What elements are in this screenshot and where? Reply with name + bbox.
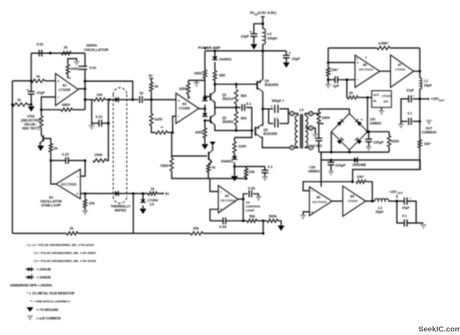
wire -15 row tie	[320, 152, 322, 160]
svg-text:+: +	[178, 99, 180, 103]
node Q2 base	[204, 119, 207, 122]
ground (earth) LT1021	[378, 111, 384, 115]
resistor 4300 (lower)	[203, 128, 206, 138]
svg-text:10k*: 10k*	[331, 68, 339, 72]
capacitor 0.33 (loop)	[222, 217, 224, 224]
svg-text:* = 1% METAL FILM RESISTOR: * = 1% METAL FILM RESISTOR	[27, 291, 75, 295]
resistor 10k* (-15 fb)	[356, 180, 366, 183]
wire 3300 loop	[188, 79, 205, 81]
svg-text:220µF: 220µF	[373, 140, 384, 144]
svg-text:L4: L4	[267, 32, 271, 36]
svg-text:1k: 1k	[212, 166, 216, 170]
svg-text:5V: 5V	[165, 192, 170, 196]
svg-text:10k: 10k	[89, 202, 95, 206]
svg-text:LT1005: LT1005	[59, 88, 71, 92]
node rect row left	[84, 98, 87, 101]
svg-text:(4.5V–5.5V): (4.5V–5.5V)	[258, 11, 277, 15]
node A1 output	[84, 88, 87, 91]
diode bridge bottom-right	[357, 139, 362, 144]
node A2 output column	[50, 159, 53, 162]
node bottom rail right end	[262, 232, 265, 235]
node rect diode junction	[108, 98, 111, 101]
capacitor 220uF (+unreg)	[365, 138, 372, 140]
pin 4 transformer	[309, 126, 313, 130]
svg-text:A6: A6	[363, 63, 367, 67]
ground (5V gnd) 22uF output	[283, 62, 290, 67]
diode 1N4001 (boost)	[212, 56, 217, 59]
resistor 10k (A2 +)	[83, 199, 86, 207]
node A4 out	[242, 198, 245, 201]
wire 10k sense to bus	[245, 177, 247, 179]
diode bridge top-right	[357, 121, 362, 126]
node output totem	[235, 106, 238, 109]
wire 2k to A2 node	[50, 152, 52, 161]
svg-text:2k: 2k	[70, 227, 74, 231]
svg-text:4300: 4300	[195, 131, 203, 135]
ground (5V gnd) LT1004	[140, 209, 147, 214]
wire Q5 emitter down	[261, 137, 290, 147]
node 220uF+ tap	[367, 130, 370, 133]
wire bridge right to unreg	[368, 131, 390, 133]
wire A1 fb to rectifier	[85, 81, 133, 100]
wire snubber top row	[319, 109, 350, 114]
wire A6 to A7	[380, 70, 391, 72]
svg-text:20µH: 20µH	[424, 84, 432, 88]
svg-text:0.1: 0.1	[402, 214, 407, 218]
wire snubber col b	[319, 124, 324, 139]
transformer L3 primary winding	[295, 116, 298, 148]
ground (earth) +15 caps	[398, 124, 404, 128]
transformer L3 secondary winding	[305, 116, 308, 148]
ground (5V gnd) 4300b	[202, 144, 209, 149]
wire A6 + input	[328, 62, 355, 64]
node bridge left bottom	[330, 151, 333, 154]
wire L1 to +15 node	[419, 89, 421, 99]
diode D2 1N4148 thermally mated	[115, 191, 118, 196]
svg-text:L1, L2 = PULSE ENGINEERING, IN: L1, L2 = PULSE ENGINEERING, INC. # PE-92…	[27, 243, 94, 247]
resistor 2k (A3 bias)	[150, 82, 153, 91]
pin 5 transformer	[309, 111, 313, 115]
node Q1 base	[204, 95, 207, 98]
wire Q1 base stub	[205, 96, 211, 98]
svg-text:1N4001: 1N4001	[219, 58, 232, 62]
legend earth symbol	[27, 316, 33, 320]
wire 47uF+15 left	[401, 99, 409, 122]
svg-text:4.99k*: 4.99k*	[378, 42, 389, 46]
svg-text:A4: A4	[225, 194, 229, 198]
wire diode to node	[234, 162, 236, 166]
ground (earth) at 2000 loop	[74, 61, 80, 65]
wire ref filter left	[328, 79, 335, 81]
ground (5V gnd) below 47uF	[28, 106, 35, 111]
capacitor 22uF input	[251, 33, 258, 35]
wire primary bottom pin	[294, 146, 298, 149]
svg-text:COMMON: COMMON	[421, 131, 437, 135]
svg-text:0.33: 0.33	[248, 186, 255, 190]
svg-text:220µF: 220µF	[335, 164, 346, 168]
resistor 6800	[61, 108, 73, 111]
wire L2 to -15 node	[389, 200, 405, 202]
node +15 unreg	[366, 130, 369, 133]
capacitor 500uF	[274, 105, 276, 113]
wire A1 output rail upper	[84, 53, 86, 66]
resistor 3300 (+unreg load)	[387, 136, 390, 148]
diode bias D4	[202, 113, 207, 116]
wire 3300 stub	[187, 80, 189, 83]
wire - node to 6800	[41, 109, 61, 111]
svg-text:IN: IN	[373, 99, 376, 103]
wire top fb rail right	[390, 47, 420, 49]
svg-text:−: −	[220, 190, 222, 194]
svg-text:+: +	[311, 210, 313, 214]
wire sense filter row	[235, 166, 265, 168]
pin 1 transformer	[290, 111, 294, 115]
svg-text:0.1: 0.1	[408, 111, 413, 115]
transistor Q5 MJE2955	[254, 127, 256, 136]
wire 220uF- gnd stub	[330, 165, 332, 171]
svg-text:0.01: 0.01	[89, 66, 96, 70]
capacitor 220uF (-unreg)	[328, 161, 335, 163]
node LT1021 in	[366, 96, 369, 99]
capacitor 0.01 (A1 output)	[79, 65, 88, 67]
wire 4300a to node	[204, 78, 206, 96]
wire bridge left col	[330, 132, 332, 152]
wire A4 fb cap stub	[243, 194, 248, 199]
wire Q4 emitter to rail	[262, 51, 264, 80]
node +15V out	[419, 98, 422, 101]
svg-text:680: 680	[219, 73, 225, 77]
wire loop row left	[210, 220, 223, 222]
pin 3 transformer	[309, 146, 313, 150]
svg-text:LOOP: LOOP	[246, 208, 255, 212]
wire 47uF+15 row	[413, 98, 420, 100]
node ref to A6 -	[346, 78, 349, 81]
wire 1k to node	[28, 104, 32, 106]
svg-text:3300: 3300	[322, 116, 330, 120]
capacitor 0.33 (A4 fb)	[248, 190, 250, 197]
wire A1 + input	[45, 80, 56, 82]
wire bias to 4300b	[204, 121, 206, 129]
wire Q6 emitter to ground	[40, 143, 41, 145]
wire 6800 to output rail	[73, 109, 86, 111]
node rail at 1N4001 col	[214, 50, 217, 53]
wire left rail vertical	[11, 81, 13, 234]
svg-text:20k: 20k	[193, 227, 199, 231]
op-amp A7 LT1010	[391, 55, 414, 87]
wire -15 fb corner	[366, 182, 372, 201]
terminal 5VIN tick	[261, 16, 265, 18]
node LT1004 tap	[142, 192, 145, 195]
svg-text:A1: A1	[62, 84, 66, 88]
svg-text:STAB LOOP: STAB LOOP	[41, 203, 61, 207]
svg-text:−: −	[357, 78, 359, 82]
ground (earth) -15 caps	[420, 225, 426, 229]
wire rect row left	[85, 99, 94, 101]
svg-text:1µF: 1µF	[333, 84, 340, 88]
wire 1N4001 top	[214, 51, 216, 57]
node 500 bottom	[235, 129, 238, 132]
node bridge bottom	[348, 151, 351, 154]
svg-text:50k: 50k	[249, 215, 255, 219]
wire gnd stub +15 caps	[400, 121, 402, 124]
op-amp A1 LT1005	[56, 74, 79, 106]
resistor 500	[235, 112, 238, 126]
svg-text:+: +	[271, 105, 273, 109]
capacitor 0.01 (top feedback)	[38, 50, 40, 57]
wire 6200 to ** row	[151, 126, 155, 133]
wire Q3 emitter to 1k	[208, 162, 212, 164]
wire ** to - column	[168, 132, 173, 134]
node 0.22 to column	[107, 122, 110, 125]
wire A4 out	[238, 198, 243, 200]
svg-text:1/2 LT1013: 1/2 LT1013	[221, 198, 236, 202]
node A8 out fb	[371, 200, 374, 203]
wire A7 to L1	[419, 71, 421, 78]
svg-text:LT1021: LT1021	[382, 94, 392, 98]
svg-text:560: 560	[241, 94, 247, 98]
wire 0.22 left stub	[92, 122, 99, 124]
wire A2 + to 10k	[84, 194, 86, 200]
resistor 2700 selected value	[40, 116, 43, 128]
svg-text:SEE TEXT): SEE TEXT)	[22, 127, 40, 131]
svg-text:10V: 10V	[383, 100, 388, 104]
svg-text:0.01: 0.01	[37, 43, 44, 47]
pin 2 transformer	[290, 146, 294, 150]
node A3 + bias	[150, 98, 153, 101]
wire A2 - input	[80, 161, 85, 177]
capacitor 22uF output	[283, 54, 290, 56]
node 22uF tap	[262, 22, 265, 25]
op-amp A2 1/2 LT1013	[56, 169, 80, 199]
svg-text:1/2 LT1013: 1/2 LT1013	[312, 200, 327, 204]
capacitor 0.002 snubber	[315, 137, 322, 139]
wire 3300 to A3	[187, 94, 189, 99]
svg-text:22µF: 22µF	[241, 34, 250, 38]
wire 0.1+15 row left	[401, 120, 407, 122]
wire 500k right	[278, 221, 281, 226]
ground (earth) sense filter	[262, 177, 268, 181]
wire bottom row	[319, 151, 389, 153]
wire 220uF+ gnd stub	[368, 142, 370, 146]
wire A3 out to bias column	[199, 108, 205, 110]
wire 7500 col top	[171, 155, 173, 158]
svg-text:0.1: 0.1	[274, 117, 279, 121]
wire 0.1+15 right	[413, 120, 420, 122]
resistor 1k (A1 + input)	[31, 79, 44, 82]
svg-text:+: +	[289, 51, 291, 55]
svg-text:1µ: 1µ	[139, 91, 143, 95]
svg-text:47µF: 47µF	[37, 91, 46, 95]
resistor 2000	[66, 65, 69, 75]
svg-text:2k: 2k	[154, 85, 158, 89]
wire sense top	[235, 131, 252, 138]
ground (earth) 3300 loop	[193, 83, 199, 87]
svg-text:47µF: 47µF	[406, 89, 414, 93]
wire 220uF+ stub	[368, 132, 370, 139]
node A2 + input	[84, 192, 87, 195]
transistor Q2 2N2905	[210, 116, 212, 123]
wire par cap left	[268, 109, 270, 124]
svg-text:A8: A8	[350, 194, 354, 198]
svg-text:0.33: 0.33	[219, 225, 226, 229]
node -15V out	[396, 200, 399, 203]
diode bias D3	[202, 98, 207, 101]
svg-text:0.1: 0.1	[246, 102, 251, 106]
svg-text:6800: 6800	[62, 103, 70, 107]
diode 1N5248B	[354, 157, 357, 163]
wire center tap	[305, 127, 309, 129]
wire Q1-Q2 column	[214, 102, 216, 114]
svg-text:+: +	[76, 192, 78, 196]
wire 5VIN down	[262, 17, 264, 29]
svg-text:OUT: OUT	[398, 191, 404, 195]
wire primary top pin	[294, 114, 298, 116]
wire 500uF to transformer	[280, 109, 290, 114]
svg-text:100µH: 100µH	[267, 37, 277, 41]
wire 2k to + node	[150, 91, 152, 99]
wire ref filter right	[338, 79, 355, 81]
diode LT1004-2.5 reference	[140, 199, 145, 202]
capacitor 0.1 (+15 out)	[408, 118, 410, 125]
resistor 4300 (upper)	[203, 70, 206, 78]
wire earth stub (3300 loop)	[196, 80, 198, 82]
wire Q4 base row	[215, 83, 257, 85]
svg-text:= +5 GROUND: = +5 GROUND	[37, 308, 60, 312]
wire 10k* to gnd node	[327, 76, 329, 84]
capacitor 0.1 (drive)	[241, 104, 243, 111]
resistor 1k (left rail to 47uF)	[12, 103, 27, 106]
resistor 560	[235, 90, 238, 105]
wire A4 fb cap right	[253, 194, 258, 196]
svg-text:L4 = PULSE ENGINEERING, INC.: L4 = PULSE ENGINEERING, INC. # PE-92108	[34, 259, 96, 263]
svg-text:500: 500	[241, 117, 247, 121]
op-amp A6 1/2 LT1013	[355, 55, 380, 87]
wire loop row mid	[226, 220, 247, 222]
wire 4300b to gnd	[204, 138, 206, 144]
ground (earth) 0.22	[89, 125, 95, 129]
wire A5 to A8	[332, 200, 343, 202]
resistor 20k (bottom rail)	[191, 232, 204, 235]
wire A5 V- col	[320, 160, 322, 187]
svg-text:= ±15 COMMON: = ±15 COMMON	[37, 317, 62, 321]
wire 10k to gnd	[84, 208, 86, 211]
terminal 5V tick	[162, 192, 164, 194]
svg-text:+: +	[361, 118, 363, 122]
wire A1 output rail lower	[84, 69, 86, 109]
svg-text:UNREG: UNREG	[308, 170, 320, 174]
rectifier bridge diamond	[331, 114, 367, 150]
svg-text:OUT: OUT	[439, 98, 445, 102]
svg-text:A5: A5	[316, 195, 320, 199]
capacitor 0.22 (A2 fb)	[65, 157, 67, 164]
ground (earth) A5 +	[300, 215, 306, 219]
node thermally mated bottom tap	[132, 192, 135, 195]
wire Q5 collector up	[261, 109, 263, 125]
svg-text:L1: L1	[424, 79, 428, 83]
wire 1N4001 to 680	[214, 62, 216, 71]
terminal +15V out tick	[428, 98, 430, 100]
node +15 col at 0.1	[419, 120, 422, 123]
svg-text:2N2219: 2N2219	[222, 97, 233, 101]
wire 2000 top loop	[68, 59, 77, 65]
inductor L4 100uH	[263, 29, 266, 45]
svg-text:A3: A3	[182, 102, 186, 106]
wire A3 - input	[173, 116, 176, 132]
resistor 10k (rectifier)	[94, 98, 106, 101]
wire A5 + input	[303, 212, 309, 215]
resistor 10k (sense filter)	[244, 169, 247, 178]
wire 4300a top	[204, 51, 206, 70]
svg-text:1/2 LT1013: 1/2 LT1013	[359, 68, 374, 72]
svg-text:10k: 10k	[97, 93, 103, 97]
wire 0.1-15 right	[407, 222, 423, 224]
capacitor 47uF (+15 out)	[408, 95, 410, 102]
resistor 2k (Q6 base)	[49, 144, 52, 153]
wire 7500 to sense bus	[172, 171, 210, 179]
transistor Q3 unmarked NPN	[208, 152, 210, 160]
wire +15 unreg up	[367, 98, 369, 132]
wire loop 50k to mid	[257, 220, 263, 222]
wire 3300 load bottom	[388, 147, 390, 152]
wire 0.22 right stub	[102, 122, 108, 124]
wire A4 + input	[210, 209, 218, 221]
svg-text:UNMARKED NPN = 2N2904: UNMARKED NPN = 2N2904	[10, 283, 52, 287]
wire A5 - input	[303, 182, 353, 191]
svg-text:200k: 200k	[95, 153, 103, 157]
op-amp A3 LT1006	[176, 93, 199, 123]
svg-text:3300: 3300	[179, 87, 187, 91]
wire power rail	[205, 50, 286, 52]
diode bridge bottom-left	[337, 139, 342, 144]
node A1 fb tap	[84, 80, 87, 83]
svg-text:−15V: −15V	[389, 190, 398, 194]
svg-text:1N4001: 1N4001	[221, 160, 234, 164]
svg-text:MJE2955: MJE2955	[265, 83, 279, 87]
wire A2 + input c	[157, 193, 163, 195]
wire LT1004 stub	[142, 194, 144, 200]
wire A7 out	[414, 70, 420, 72]
wire 5V to 2k	[150, 79, 152, 83]
capacitor 1uF (rect)	[139, 96, 141, 103]
svg-text:L3 = PULSE ENGINEERING, INC.: L3 = PULSE ENGINEERING, INC. # PE-65064	[34, 251, 96, 255]
svg-text:+: +	[357, 61, 359, 65]
wire secondary top pin	[305, 114, 309, 116]
wire bottom rail seg2	[78, 232, 191, 234]
node Q4 drive	[214, 83, 217, 86]
svg-text:10k: 10k	[249, 170, 255, 174]
svg-text:MATED: MATED	[115, 209, 127, 213]
wire tap to bottom rail	[132, 194, 134, 234]
resistor ** (TRW)	[156, 131, 168, 134]
wire 0.1 sense gnd stub	[264, 173, 266, 177]
resistor 50k	[247, 219, 257, 222]
wire 1200 to diode	[234, 153, 236, 156]
svg-text:1k: 1k	[17, 98, 21, 102]
svg-text:+: +	[413, 94, 415, 98]
svg-text:1200: 1200	[238, 145, 246, 149]
resistor 3300 snubber	[317, 112, 320, 124]
legend diode symbol	[28, 267, 31, 271]
wire LT1021 gnd stub	[381, 107, 383, 110]
wire Q3 base	[172, 155, 207, 157]
wire A2 + input a	[80, 193, 115, 195]
node A3 output to bias	[204, 108, 207, 111]
transistor Q4 MJE2955	[256, 81, 258, 90]
wire 47uF top stub	[30, 81, 32, 91]
wire fb rail right down	[419, 48, 421, 71]
resistor 10k* (+15 divider)	[418, 140, 421, 148]
svg-text:6200: 6200	[154, 117, 162, 121]
